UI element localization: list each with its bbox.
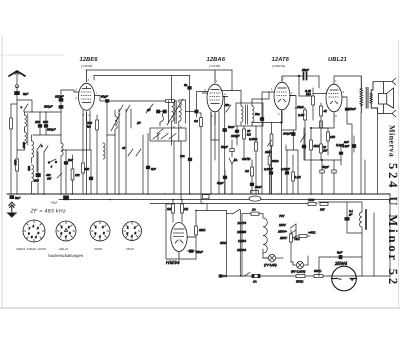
wire grid cap up to tube2 xyxy=(197,92,208,111)
transformer T1 secondary coil xyxy=(370,82,377,114)
svg-text:220V: 220V xyxy=(279,236,288,240)
pin digits U4 xyxy=(326,79,345,118)
capacitor C23 8nF xyxy=(319,255,362,276)
svg-text:150V+: 150V+ xyxy=(278,230,287,234)
wire tube2 pin drops xyxy=(210,112,212,194)
svg-text:1: 1 xyxy=(95,225,97,229)
svg-text:0,1μF: 0,1μF xyxy=(336,143,344,147)
svg-text:1A: 1A xyxy=(252,208,256,212)
svg-text:(=HK90): (=HK90) xyxy=(81,64,92,68)
wire x219 down xyxy=(218,140,220,194)
wire mains pole 2 xyxy=(226,211,228,276)
svg-text:2MΩ: 2MΩ xyxy=(198,228,206,232)
svg-text:1: 1 xyxy=(335,79,337,83)
wire 50uF top link xyxy=(311,159,341,161)
capacitor C3 220pF xyxy=(59,106,63,136)
svg-text:12k: 12k xyxy=(75,173,80,177)
svg-text:2: 2 xyxy=(342,90,345,94)
svg-text:ZF = 483 kHz: ZF = 483 kHz xyxy=(30,208,66,214)
svg-text:2A: 2A xyxy=(233,158,238,162)
svg-text:7: 7 xyxy=(96,91,98,95)
svg-text:2: 2 xyxy=(36,226,39,230)
wire padder bottom row xyxy=(33,134,61,136)
svg-text:50nF: 50nF xyxy=(228,125,235,129)
wire: top plate line xyxy=(86,69,232,71)
wire tube1 heater pins xyxy=(82,110,84,150)
wire tube2 screen drop xyxy=(223,97,227,195)
svg-text:2: 2 xyxy=(87,78,90,82)
svg-text:5nF: 5nF xyxy=(151,167,156,171)
wire tube3 cathode drop xyxy=(281,111,283,194)
svg-text:52k: 52k xyxy=(85,167,90,171)
svg-text:(=HF93): (=HF93) xyxy=(209,64,220,68)
resistor R11 150 xyxy=(327,128,330,155)
trimmer arrow tube2 xyxy=(226,105,231,112)
svg-text:1: 1 xyxy=(127,226,129,230)
svg-text:3: 3 xyxy=(103,231,105,235)
svg-text:6800: 6800 xyxy=(22,142,26,149)
socket X3 (HM34) xyxy=(90,221,110,241)
svg-text:25nF: 25nF xyxy=(301,68,309,72)
svg-text:7: 7 xyxy=(29,227,31,231)
wire: tube3 plate line xyxy=(282,76,297,81)
scan page edge bottom xyxy=(0,307,400,309)
node C xyxy=(321,159,322,160)
wire tube2 cathode xyxy=(214,113,216,160)
choke L20 field coil xyxy=(360,212,363,257)
wire: tube4 grid line xyxy=(318,76,320,88)
svg-text:7: 7 xyxy=(283,77,285,81)
switch S8a xyxy=(128,149,133,156)
wire UBL21 grid xyxy=(313,93,321,95)
tube U5 HM34 xyxy=(171,223,196,260)
svg-text:6: 6 xyxy=(28,232,30,236)
svg-text:4: 4 xyxy=(35,235,37,239)
svg-text:45: 45 xyxy=(122,146,126,150)
wire: right vertical rail xyxy=(389,194,391,277)
IFT1 primary coil L8 xyxy=(172,76,174,146)
wire x190 column xyxy=(189,76,191,195)
junction dots on ground bus xyxy=(16,193,353,277)
svg-text:μF: μF xyxy=(348,213,353,217)
svg-text:1: 1 xyxy=(271,87,273,91)
svg-text:(7V 0,3A): (7V 0,3A) xyxy=(264,263,277,267)
resistor R21 500 1W a xyxy=(308,203,316,206)
wire drop x126 xyxy=(125,147,127,194)
svg-text:Minerva: Minerva xyxy=(388,125,397,157)
svg-text:8: 8 xyxy=(335,114,337,118)
svg-text:220pF: 220pF xyxy=(43,105,53,109)
electrolytic can C34 xyxy=(249,196,261,201)
svg-text:VDR: VDR xyxy=(308,198,315,202)
svg-text:12AT6: 12AT6 xyxy=(272,56,290,63)
electrolytic C20 50uF xyxy=(332,160,336,194)
wire tube1 plate row xyxy=(100,96,135,102)
resistor R23 0.5M xyxy=(255,126,258,194)
svg-text:1A: 1A xyxy=(253,280,257,284)
wire: rail x374 xyxy=(373,213,375,276)
svg-text:40μF: 40μF xyxy=(51,201,58,205)
switch S8b xyxy=(136,149,141,156)
rectifier V1 25W4 xyxy=(332,266,357,291)
wire: tube2 plate drop xyxy=(231,70,233,91)
switch S1d xyxy=(48,159,57,163)
node AVC xyxy=(281,122,283,124)
svg-text:12BA6: 12BA6 xyxy=(237,248,246,252)
wire drop x115 xyxy=(114,135,116,194)
tube U1 12BE6 xyxy=(74,70,100,122)
capacitor C30 xyxy=(146,166,150,169)
svg-text:5: 5 xyxy=(278,112,280,116)
wire osc row xyxy=(107,101,115,135)
capacitor C6 xyxy=(36,152,40,194)
IFT2 box xyxy=(236,103,263,126)
wire hook down xyxy=(159,122,161,126)
svg-text:12BE6: 12BE6 xyxy=(80,56,99,63)
svg-text:110V: 110V xyxy=(279,223,287,227)
svg-text:1: 1 xyxy=(61,225,63,229)
capacitor C32 on bus xyxy=(203,195,210,199)
mains cord double wire xyxy=(239,214,241,276)
capacitor 25nF coupling xyxy=(297,73,319,80)
resistor R15 2M xyxy=(195,211,198,260)
wire drop x131 xyxy=(130,109,132,128)
tube U2 12BA6 xyxy=(202,70,228,125)
svg-text:1: 1 xyxy=(216,79,218,83)
svg-text:4: 4 xyxy=(51,165,53,169)
svg-text:180: 180 xyxy=(35,120,40,124)
wire row y150 right xyxy=(286,145,298,194)
svg-text:4: 4 xyxy=(131,234,133,238)
switch S2b xyxy=(126,105,130,112)
resistor R28 plate feed xyxy=(166,100,175,103)
wire drop x107 xyxy=(106,135,108,194)
capacitor C14 xyxy=(260,118,264,195)
resistor R9 0.3M xyxy=(304,108,311,160)
wire tuned circuit top row xyxy=(32,111,61,113)
svg-text:1W: 1W xyxy=(47,177,52,181)
svg-text:5: 5 xyxy=(61,232,63,236)
svg-text:250: 250 xyxy=(33,179,39,183)
coil L5 xyxy=(61,143,63,194)
capacitor C33 on bus xyxy=(251,191,259,194)
resistor R13 1M xyxy=(172,200,175,223)
resistor R5 300k xyxy=(96,115,99,194)
svg-text:50μF: 50μF xyxy=(221,145,228,149)
svg-text:2: 2 xyxy=(67,225,70,229)
wire x44 drop xyxy=(43,154,45,194)
svg-text:1M: 1M xyxy=(194,119,199,123)
wire switch drops xyxy=(118,112,120,194)
svg-text:50p: 50p xyxy=(255,112,260,116)
svg-text:(=HBC91): (=HBC91) xyxy=(272,64,285,68)
wire tap to band switch xyxy=(17,100,32,112)
tone switch S9 xyxy=(301,128,306,160)
wire tube2 screen xyxy=(211,112,219,140)
core L1/L2 xyxy=(27,114,29,145)
wire cath to bus xyxy=(347,120,352,194)
socket X4 (25W4) xyxy=(123,222,142,241)
coil L2 xyxy=(25,130,27,147)
svg-text:100μF: 100μF xyxy=(283,132,291,136)
node B xyxy=(310,127,311,128)
svg-text:(6V 0,15A): (6V 0,15A) xyxy=(291,270,305,274)
fuse F1 1A top xyxy=(242,212,263,215)
capacitor C17 50nF cathode xyxy=(345,97,349,120)
capacitor C16 coupling to UBL21 grid xyxy=(312,88,315,120)
electrolytic C24 50uF xyxy=(230,140,234,157)
capacitor C11 xyxy=(188,87,192,90)
wire tube4 heater tap xyxy=(364,160,366,194)
resistor R1 xyxy=(10,104,17,194)
svg-text:2: 2 xyxy=(133,226,136,230)
coil L4 osc sec xyxy=(32,165,34,194)
coil L21 xyxy=(103,143,105,159)
wire IFT1 sec to grid cap xyxy=(186,111,195,113)
wire HM34 box xyxy=(166,204,196,259)
electrolytic C21 40uF xyxy=(64,196,69,200)
capacitor C28 0.25uF xyxy=(285,150,289,194)
svg-text:1M: 1M xyxy=(167,207,172,211)
capacitor C29 50nF xyxy=(345,202,362,233)
resistor R4 52k xyxy=(82,150,85,194)
svg-text:GRÜN: GRÜN xyxy=(242,157,251,161)
svg-text:150: 150 xyxy=(330,135,335,139)
switch S7 xyxy=(229,158,235,194)
capacitor C12b grid xyxy=(195,110,198,113)
svg-text:25W4: 25W4 xyxy=(125,247,134,251)
svg-text:4: 4 xyxy=(99,235,101,239)
capacitor C9 xyxy=(157,110,160,113)
svg-text:25nF: 25nF xyxy=(254,185,262,189)
wire: second top line xyxy=(94,76,190,81)
svg-text:1kΩ: 1kΩ xyxy=(314,144,320,148)
transformer T1 core xyxy=(366,87,368,109)
svg-text:50nF: 50nF xyxy=(349,107,356,111)
socket X2 (UBL21) xyxy=(56,221,76,241)
resistor R27 1k 1W xyxy=(320,144,323,160)
svg-text:25nF: 25nF xyxy=(296,105,304,109)
heater chain bumps xyxy=(263,214,267,253)
svg-text:5: 5 xyxy=(31,235,33,239)
svg-text:0,5MΩ: 0,5MΩ xyxy=(249,137,258,141)
svg-text:UBL21: UBL21 xyxy=(59,247,69,251)
svg-text:150: 150 xyxy=(225,103,230,107)
scan page edge top-left xyxy=(0,54,64,56)
svg-text:ZF: ZF xyxy=(136,121,141,125)
wire: tube4 plate to transformer xyxy=(334,76,361,84)
svg-text:5: 5 xyxy=(76,88,78,92)
switch S2a xyxy=(119,105,123,112)
svg-text:5nF: 5nF xyxy=(23,92,28,96)
wire speaker secondary down xyxy=(377,114,379,195)
svg-text:100pF: 100pF xyxy=(231,134,240,138)
node G4 xyxy=(298,75,300,77)
tube U3 12AT6 xyxy=(269,76,295,122)
trimmer arrow IFT1 xyxy=(167,99,183,125)
resistor R29 xyxy=(320,121,323,128)
wire screen feed xyxy=(311,127,328,129)
svg-text:HM34: HM34 xyxy=(94,247,102,251)
wire tube1 cathode drop xyxy=(86,112,88,194)
resistor R22 500 1W b xyxy=(320,203,328,206)
svg-text:180pF: 180pF xyxy=(55,95,64,99)
capacitor C1 5nF xyxy=(15,86,20,194)
mains bottom bus xyxy=(222,275,390,277)
svg-text:3: 3 xyxy=(135,231,137,235)
resistor R8 10k xyxy=(243,126,246,160)
pin digits U1 xyxy=(76,78,98,117)
svg-text:0,25μF: 0,25μF xyxy=(281,167,290,171)
svg-text:k: k xyxy=(41,144,43,148)
svg-text:+: + xyxy=(351,277,354,282)
capacitor C25 50uF xyxy=(223,170,227,194)
wire heater stub xyxy=(206,204,208,211)
IFT2 secondary L12 xyxy=(252,102,254,126)
svg-text:0,25μF: 0,25μF xyxy=(264,167,273,171)
svg-text:2: 2 xyxy=(210,114,213,118)
capacitor C10 xyxy=(163,110,166,113)
socket X1 (12BE6 12BA6 12AT6) xyxy=(23,220,45,242)
wire heater top line xyxy=(196,210,227,212)
potentiometer P1 volume xyxy=(268,123,273,195)
svg-text:MΩ: MΩ xyxy=(306,92,311,96)
resistor R6 xyxy=(200,113,203,204)
IFT1 secondary coil L9 xyxy=(179,100,186,141)
pin digits U3 xyxy=(271,77,293,116)
capacitor C7 5nF bus left end xyxy=(10,196,14,199)
choke core bar xyxy=(365,210,367,229)
svg-text:−: − xyxy=(339,277,342,282)
switch S1b xyxy=(37,144,41,152)
svg-text:12BA6: 12BA6 xyxy=(207,56,226,63)
lamp E2 xyxy=(293,256,308,269)
svg-text:524 U Minor 52: 524 U Minor 52 xyxy=(386,163,400,287)
switch S1e xyxy=(57,173,62,178)
svg-text:2: 2 xyxy=(101,225,104,229)
capacitor C15 xyxy=(292,130,296,150)
capacitor C35 xyxy=(352,136,356,152)
svg-text:6: 6 xyxy=(76,96,78,100)
waveband switch box xyxy=(150,128,186,141)
trimmer arrow L6 xyxy=(111,114,120,131)
svg-text:1M: 1M xyxy=(245,169,250,173)
IFT2 core xyxy=(246,105,248,124)
wire tube3 anode row xyxy=(282,96,297,131)
svg-text:300Ω: 300Ω xyxy=(314,269,322,273)
electrolytic C19 50uF xyxy=(320,160,324,194)
resistor R19 xyxy=(314,275,323,278)
capacitor C8 60pF xyxy=(106,100,109,103)
IFT1 core xyxy=(175,101,176,124)
resistor R3 xyxy=(71,155,74,194)
trimmer arrow ZF xyxy=(146,104,153,113)
svg-text:350: 350 xyxy=(27,166,31,171)
wire tube2 plate row xyxy=(221,91,241,102)
capacitor C7b xyxy=(61,150,68,194)
wire drop x181 xyxy=(180,141,182,200)
wire grid leak top xyxy=(299,76,312,96)
svg-text:1kΩ: 1kΩ xyxy=(14,160,18,166)
transformer T1 output primary coil xyxy=(360,76,362,113)
resistor R14 1M xyxy=(181,200,184,223)
svg-text:3n: 3n xyxy=(184,83,188,87)
svg-text:1W: 1W xyxy=(323,149,328,153)
antenna xyxy=(9,71,25,76)
wire transformer bottom xyxy=(360,113,362,194)
capacitor C2 180pF xyxy=(59,90,63,105)
resistor R17 75 xyxy=(290,230,293,265)
wire x37 drop xyxy=(36,152,38,172)
capacitor C8b xyxy=(89,150,93,194)
svg-text:5nF: 5nF xyxy=(15,196,20,200)
svg-text:4k: 4k xyxy=(324,109,328,113)
svg-text:50μF: 50μF xyxy=(322,165,329,169)
svg-text:600: 600 xyxy=(43,120,48,124)
svg-text:12BE6: 12BE6 xyxy=(237,230,246,234)
wire plate feed corner xyxy=(135,100,176,102)
switch S1a xyxy=(24,104,28,112)
wire tube3 plate xyxy=(295,107,305,109)
wire UBL21 cathode net xyxy=(321,122,334,128)
svg-text:UBL21: UBL21 xyxy=(328,56,347,63)
wire IFT2 to tube3 grid xyxy=(252,92,269,102)
speaker LS xyxy=(373,78,396,117)
wire coil bottom xyxy=(17,147,25,150)
B+ bus wire xyxy=(59,199,390,201)
pin digits U2 xyxy=(204,79,226,118)
svg-text:63kΩ: 63kΩ xyxy=(272,159,280,163)
IFT2 primary L11 xyxy=(241,101,243,125)
svg-text:50μF: 50μF xyxy=(217,181,224,185)
svg-text:2: 2 xyxy=(290,91,293,95)
svg-text:1: 1 xyxy=(33,224,35,228)
svg-text:12AT6: 12AT6 xyxy=(237,221,246,225)
wire drop x148 xyxy=(147,133,149,194)
resistor R24 1M xyxy=(251,160,254,183)
svg-text:4: 4 xyxy=(65,235,67,239)
coil L1 xyxy=(25,112,33,130)
scan page edge left xyxy=(1,36,3,308)
svg-text:12BE6, 12BA6, 12AT6: 12BE6, 12BA6, 12AT6 xyxy=(16,247,46,251)
wire AVC tap xyxy=(252,122,282,124)
fuse F2 1A xyxy=(252,274,260,277)
svg-text:75Ω: 75Ω xyxy=(294,237,300,241)
wire switch feed xyxy=(227,213,234,215)
svg-text:Sockelschaltungen: Sockelschaltungen xyxy=(48,253,84,258)
AVC bus wire xyxy=(150,203,317,205)
resistor R10 4k xyxy=(320,103,323,144)
capacitor C13 100pF xyxy=(235,126,239,145)
capacitor C18 0.1uF xyxy=(339,147,343,165)
svg-text:60pF: 60pF xyxy=(101,95,108,99)
wire row y150 xyxy=(66,149,91,151)
mains plug xyxy=(219,275,227,278)
svg-text:1W: 1W xyxy=(320,208,326,212)
svg-text:1M: 1M xyxy=(184,207,189,211)
capacitor C31 xyxy=(188,158,192,161)
padder C4 180 xyxy=(38,112,42,135)
resistor R25 63k xyxy=(268,150,271,194)
switch S3 in box xyxy=(153,129,176,139)
mains switch S4 xyxy=(233,209,241,214)
coupling hook L7 xyxy=(160,112,166,123)
svg-text:8nF: 8nF xyxy=(337,251,342,255)
ground GND1 xyxy=(7,202,16,217)
lamp E1 dial xyxy=(263,249,283,262)
svg-text:kΩ: kΩ xyxy=(87,125,92,129)
resistor R26 xyxy=(292,155,295,194)
